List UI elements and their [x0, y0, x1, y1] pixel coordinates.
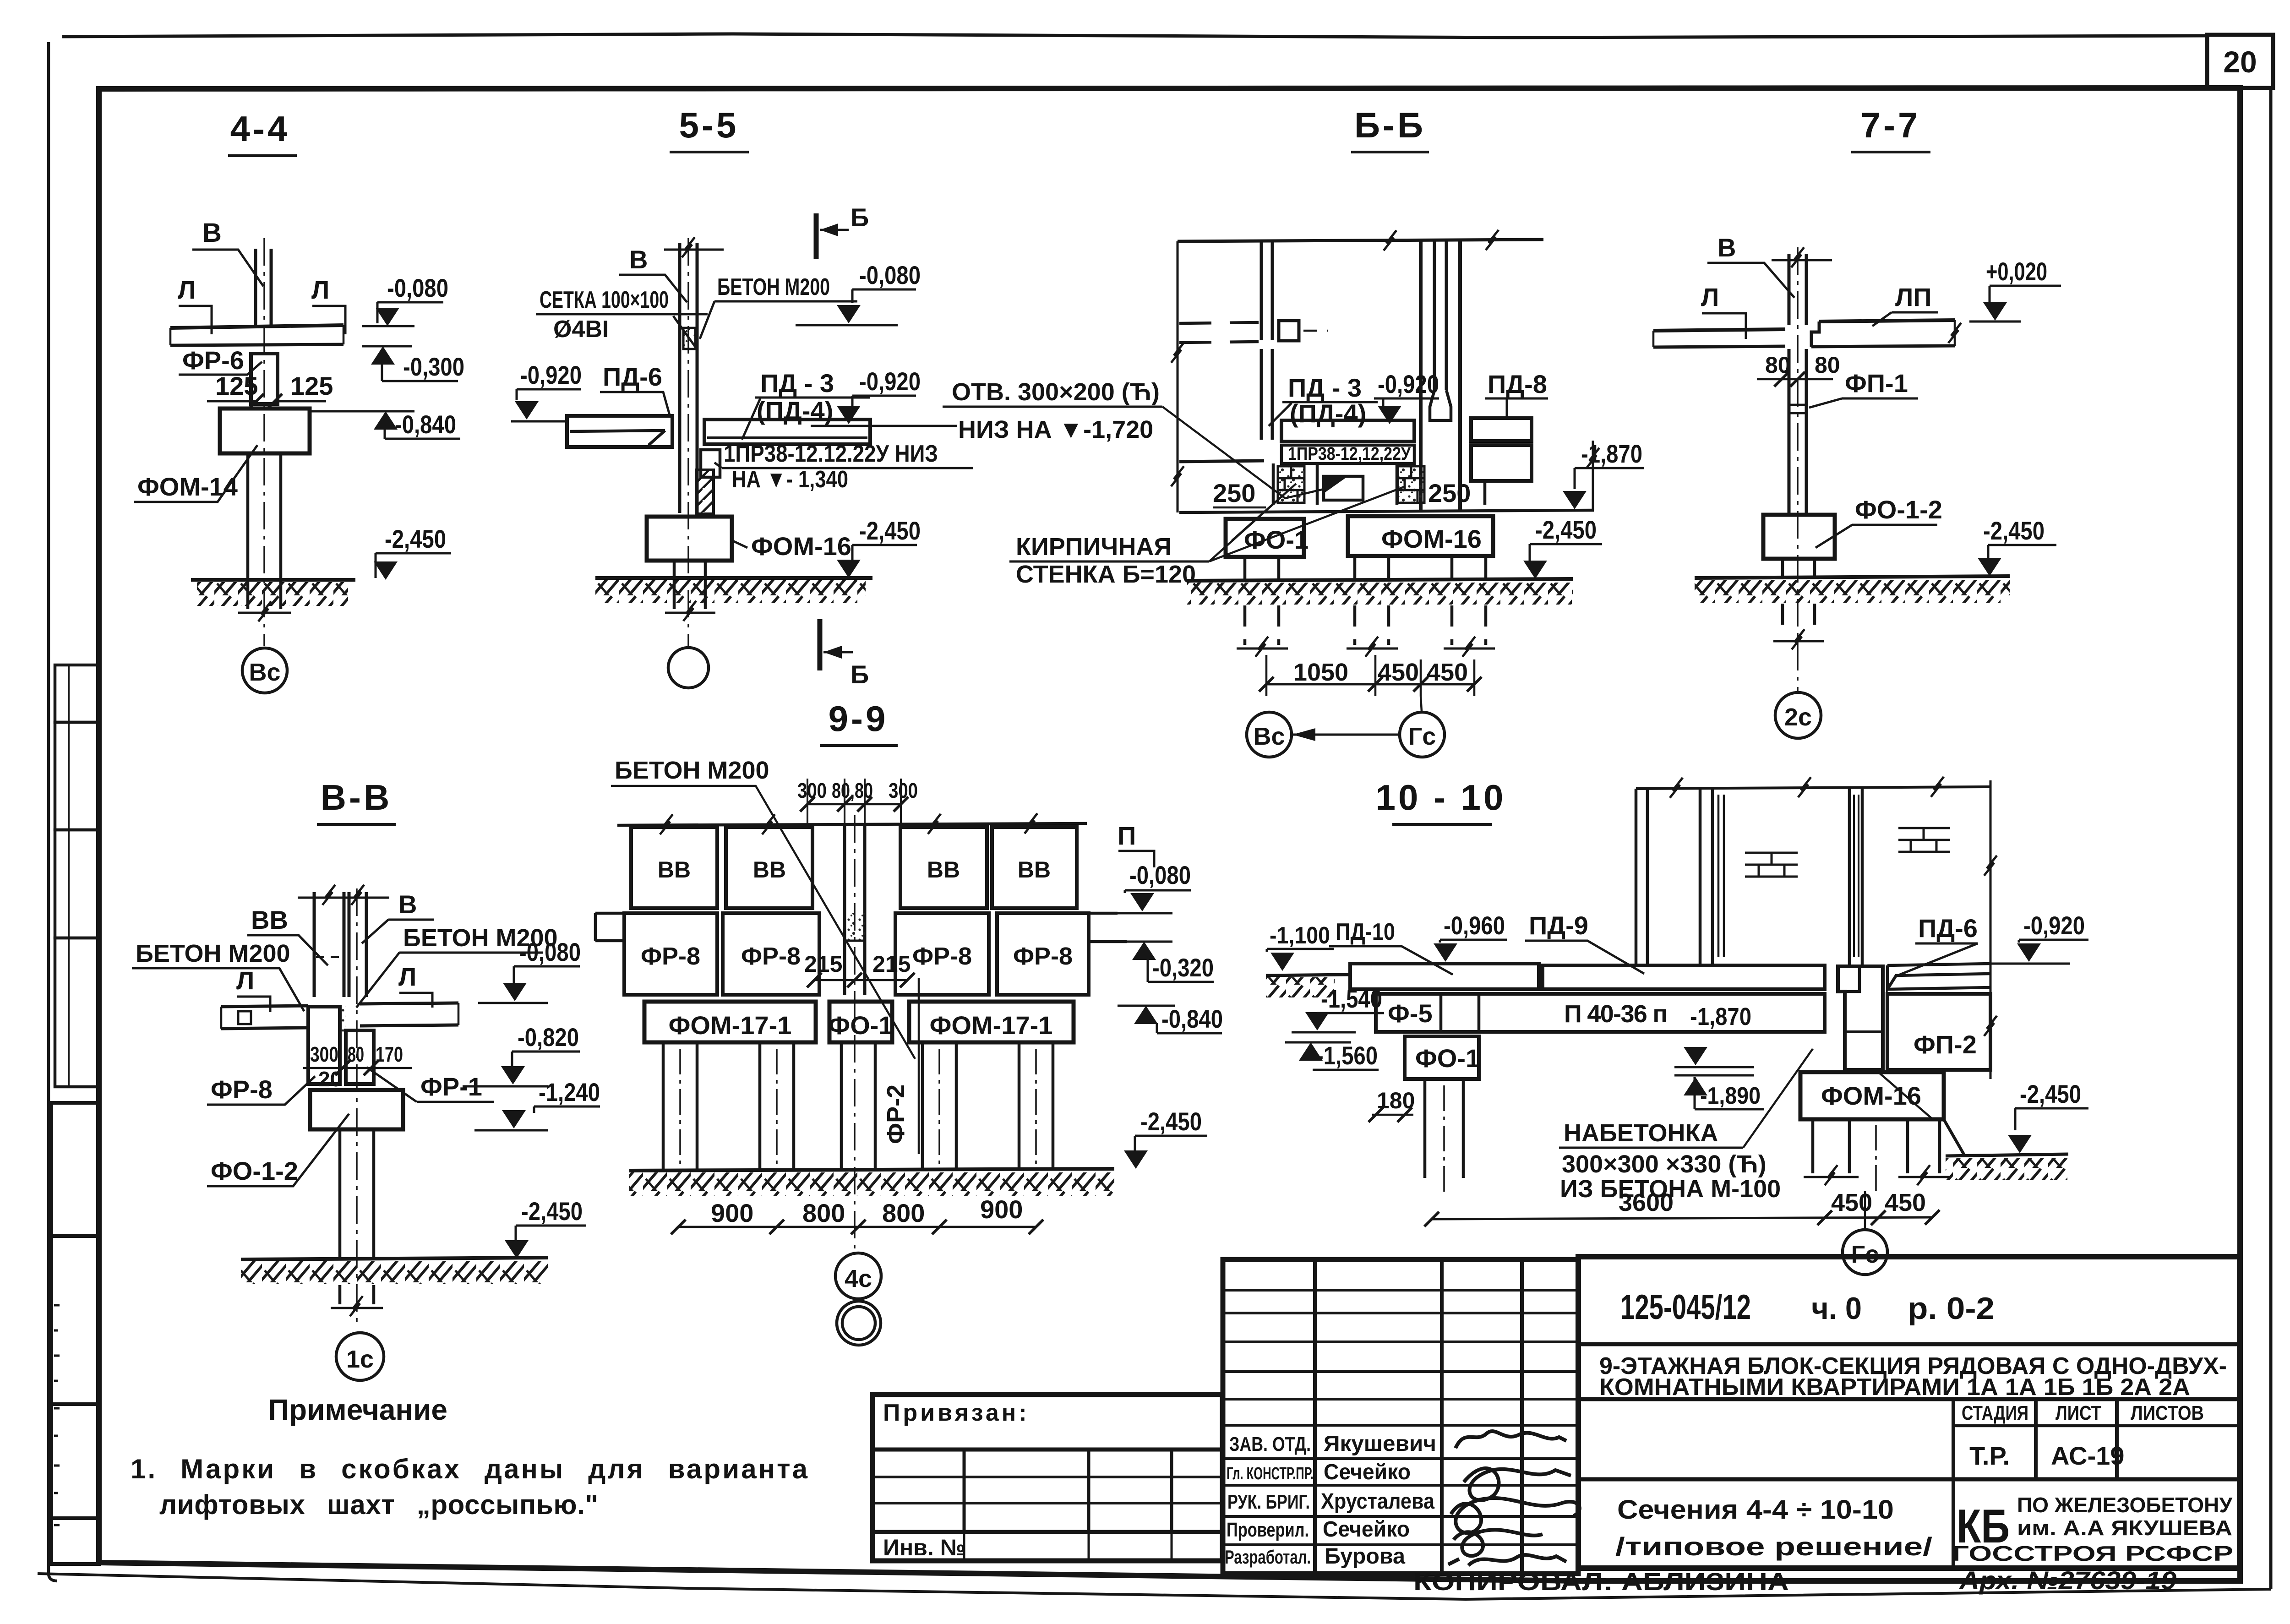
svg-text:Л: Л: [236, 966, 254, 995]
svg-text:-2,450: -2,450: [521, 1197, 583, 1226]
svg-text:Л: Л: [1701, 283, 1719, 311]
svg-text:-0,080: -0,080: [859, 261, 921, 289]
svg-text:ФР-2: ФР-2: [882, 1084, 910, 1144]
ground: [629, 1169, 1114, 1171]
beam П 40-36п row: [1376, 994, 1825, 1032]
top slab line: [1178, 240, 1543, 241]
right slab: [360, 1003, 458, 1026]
svg-text:ПД-6: ПД-6: [1918, 914, 1978, 943]
svg-text:-0,920: -0,920: [520, 360, 582, 389]
svg-text:ФП-2: ФП-2: [1914, 1030, 1977, 1059]
centerline: [854, 815, 856, 1250]
elevation -0,840: [310, 410, 460, 439]
svg-text:ПД-10: ПД-10: [1336, 919, 1395, 945]
ФОМ-16 footing: [1800, 1072, 1944, 1119]
svg-text:Сечейко: Сечейко: [1324, 1460, 1411, 1484]
right lower slab: [1471, 445, 1532, 481]
pile: [340, 1129, 374, 1259]
svg-text:-0,840: -0,840: [395, 410, 456, 439]
svg-text:800: 800: [882, 1199, 925, 1227]
sheet number box 20: [2207, 35, 2273, 88]
svg-text:В-В: В-В: [321, 777, 393, 817]
svg-text:ФР-8: ФР-8: [741, 943, 801, 970]
svg-text:В: В: [202, 218, 222, 248]
left margin boxes: [51, 665, 99, 1564]
svg-text:Б-Б: Б-Б: [1354, 105, 1426, 145]
ground: [1187, 579, 1573, 581]
axis circle (empty): [668, 648, 709, 688]
svg-text:ВВ: ВВ: [1018, 857, 1051, 883]
svg-text:Проверил.: Проверил.: [1227, 1519, 1309, 1541]
-1,890 level: [1674, 1066, 1754, 1068]
svg-text:300×300 ×330 (Ћ): 300×300 ×330 (Ћ): [1562, 1150, 1767, 1178]
top line: [1636, 787, 1990, 789]
svg-text:/типовое решение/: /типовое решение/: [1615, 1532, 1933, 1561]
axis circle Гс: [1864, 1191, 1866, 1229]
dashed slab: [1179, 322, 1259, 343]
bottom dims: [678, 1226, 1036, 1228]
svg-text:Сечейко: Сечейко: [1323, 1517, 1410, 1542]
center column: [845, 823, 865, 995]
bottom dims: [1432, 1217, 1932, 1219]
svg-text:4с: 4с: [845, 1265, 872, 1292]
left wall: [1261, 241, 1272, 340]
svg-text:Привязан:: Привязан:: [883, 1400, 1030, 1426]
svg-text:БЕТОН М200: БЕТОН М200: [717, 274, 830, 300]
svg-text:-2,450: -2,450: [1535, 515, 1597, 544]
svg-text:-0,920: -0,920: [859, 367, 921, 396]
right part: [1578, 1257, 2240, 1568]
svg-text:ВВ: ВВ: [251, 905, 288, 934]
svg-text:170: 170: [376, 1042, 403, 1066]
leaders from КИРПИЧНАЯ to piers: [1232, 484, 1296, 540]
svg-text:ФР-8: ФР-8: [641, 943, 700, 970]
svg-text:1ПР38-12,12,22У: 1ПР38-12,12,22У: [1288, 444, 1411, 464]
svg-text:ФО-1-2: ФО-1-2: [1855, 495, 1942, 524]
svg-text:КИРПИЧНАЯ: КИРПИЧНАЯ: [1016, 533, 1172, 561]
svg-text:Вс: Вс: [249, 659, 280, 686]
footing ФОМ-16: [1348, 516, 1493, 556]
svg-text:450: 450: [1831, 1189, 1872, 1216]
svg-text:Гл. КОНСТР.ПР.: Гл. КОНСТР.ПР.: [1227, 1464, 1314, 1483]
slab ПД-3 right: [704, 420, 870, 444]
svg-text:ФО-1: ФО-1: [1415, 1044, 1480, 1073]
svg-text:РУК. БРИГ.: РУК. БРИГ.: [1227, 1491, 1310, 1513]
svg-text:ФО-1: ФО-1: [828, 1011, 893, 1040]
ground: [1695, 576, 2010, 578]
axis circle Вс: [242, 648, 287, 693]
svg-text:5-5: 5-5: [679, 105, 739, 145]
svg-text:900: 900: [711, 1199, 753, 1227]
svg-text:-0,920: -0,920: [1378, 370, 1439, 398]
shaft hopper: [1430, 390, 1451, 420]
svg-text:Арх. №27639-19: Арх. №27639-19: [1958, 1566, 2176, 1595]
svg-text:-0,080: -0,080: [1129, 861, 1191, 889]
top line: [617, 823, 1087, 825]
svg-text:СТАДИЯ: СТАДИЯ: [1962, 1402, 2028, 1424]
bottom dimensions: [1266, 683, 1474, 686]
svg-text:-2,450: -2,450: [1140, 1107, 1202, 1136]
centerline: [1797, 247, 1799, 692]
svg-text:-1,240: -1,240: [539, 1078, 600, 1106]
svg-text:ФОМ-17-1: ФОМ-17-1: [930, 1011, 1053, 1040]
svg-text:им. А.А ЯКУШЕВА: им. А.А ЯКУШЕВА: [2017, 1516, 2232, 1540]
slab ПД-6 left: [567, 416, 672, 447]
ground: [595, 576, 872, 580]
elevation -0,080: [362, 273, 448, 326]
footing ФОМ-16: [647, 517, 732, 561]
beam 1ПР38 cross-section: [701, 450, 720, 477]
svg-text:7-7: 7-7: [1861, 105, 1921, 145]
slabs: [1350, 964, 1539, 989]
svg-text:ФОМ-17-1: ФОМ-17-1: [669, 1011, 792, 1040]
left notch: [595, 913, 624, 941]
svg-text:4-4: 4-4: [230, 109, 290, 149]
svg-text:-2,450: -2,450: [1983, 516, 2045, 545]
ФР-8 row: [624, 913, 1089, 995]
svg-text:Ø4ВI: Ø4ВI: [553, 316, 609, 343]
svg-text:ФОМ-14: ФОМ-14: [137, 472, 238, 501]
svg-text:ФП-1: ФП-1: [1845, 369, 1908, 398]
ФП-2 block: [1887, 994, 1990, 1070]
right slab stepped: [1819, 320, 1955, 322]
svg-text:В: В: [398, 890, 417, 919]
svg-text:Гс: Гс: [1408, 723, 1436, 750]
svg-text:1ПР38-12.12.22У НИЗ: 1ПР38-12.12.22У НИЗ: [724, 441, 938, 467]
svg-text:-0,960: -0,960: [1444, 911, 1505, 940]
svg-text:Ф-5: Ф-5: [1388, 999, 1433, 1028]
svg-text:-1,560: -1,560: [1316, 1041, 1378, 1070]
svg-text:ГОССТРОЯ РСФСР: ГОССТРОЯ РСФСР: [1952, 1542, 2233, 1565]
footing ФОМ-14: [220, 409, 310, 453]
svg-text:300: 300: [310, 1042, 338, 1066]
svg-text:ПД-9: ПД-9: [1529, 911, 1588, 940]
left floor line: [1179, 461, 1264, 462]
svg-text:-1,870: -1,870: [1690, 1003, 1751, 1030]
cut mark Б bottom: [818, 619, 823, 670]
svg-text:-1,100: -1,100: [1270, 922, 1330, 949]
piles solid: [1245, 557, 1279, 582]
svg-text:ВВ: ВВ: [753, 857, 786, 883]
svg-text:Примечание: Примечание: [268, 1393, 447, 1426]
svg-text:Б: Б: [851, 660, 869, 689]
brick piers: [1278, 466, 1424, 503]
pile: [674, 561, 705, 578]
svg-text:КОПИРОВАЛ: АБЛИЗИНА: КОПИРОВАЛ: АБЛИЗИНА: [1413, 1568, 1789, 1596]
elevation -2,450: [374, 524, 451, 580]
wall above: [1789, 254, 1806, 325]
piles under ФО-1: [1425, 1079, 1463, 1178]
svg-text:Л: Л: [398, 962, 416, 991]
piles under ФОМ-16: [1813, 1119, 1940, 1173]
walls above: [314, 892, 344, 997]
svg-text:-0,300: -0,300: [403, 352, 464, 381]
floor slab left part: [1281, 420, 1414, 441]
left slab: [221, 1006, 308, 1029]
svg-text:900: 900: [980, 1195, 1023, 1224]
right dim line: [1990, 780, 1992, 1079]
pile: [248, 453, 281, 581]
svg-text:ЛИСТОВ: ЛИСТОВ: [2131, 1402, 2204, 1424]
svg-text:3600: 3600: [1619, 1189, 1674, 1216]
svg-text:800: 800: [802, 1199, 845, 1227]
right ground: [1946, 1154, 2068, 1156]
pile: [1783, 559, 1815, 578]
svg-text:215: 215: [872, 951, 911, 977]
svg-text:125: 125: [290, 371, 333, 400]
svg-text:Бурова: Бурова: [1325, 1544, 1405, 1569]
svg-text:В: В: [1717, 233, 1736, 262]
svg-text:ВВ: ВВ: [927, 857, 960, 883]
svg-text:-2,450: -2,450: [385, 524, 446, 553]
svg-text:Якушевич: Якушевич: [1324, 1432, 1436, 1456]
footing ФО-1: [1226, 519, 1304, 557]
svg-text:250: 250: [1213, 479, 1255, 507]
svg-text:ФР-8: ФР-8: [912, 943, 972, 970]
left wide wall: [1636, 789, 1647, 965]
central pier: [1838, 966, 1883, 1070]
svg-text:Т.Р.: Т.Р.: [1969, 1441, 2010, 1470]
svg-text:-1,890: -1,890: [1700, 1083, 1761, 1109]
level line -1,870: [1179, 510, 1594, 512]
svg-text:ЛИСТ: ЛИСТ: [2056, 1402, 2101, 1424]
svg-text:ФОМ-16: ФОМ-16: [1381, 524, 1482, 553]
svg-text:ПО ЖЕЛЕЗОБЕТОНУ: ПО ЖЕЛЕЗОБЕТОНУ: [2017, 1493, 2233, 1517]
svg-text:450: 450: [1885, 1189, 1926, 1216]
svg-text:1с: 1с: [346, 1346, 374, 1373]
svg-text:В: В: [629, 245, 648, 274]
brick mark right: [1898, 828, 1950, 852]
signatures scribbles: [1448, 1431, 1580, 1565]
joint detail: [683, 328, 695, 349]
svg-text:НИЗ НА ▼-1,720: НИЗ НА ▼-1,720: [958, 416, 1153, 443]
block ФР-8: [308, 1007, 340, 1084]
footing: [310, 1090, 403, 1129]
svg-text:П: П: [1118, 821, 1136, 850]
svg-text:Хрусталева: Хрусталева: [1321, 1489, 1434, 1514]
svg-text:20: 20: [2223, 45, 2257, 79]
centerline: [687, 238, 689, 649]
svg-text:Б: Б: [851, 203, 869, 232]
beam row 1ПР38-12.12.22У: [1281, 445, 1414, 463]
callouts between 5-5 and 6-6: [943, 378, 1405, 588]
axis circle 4с: [835, 1253, 881, 1299]
svg-text:80: 80: [1815, 352, 1840, 378]
wall В: [256, 249, 271, 326]
central signature table: [1223, 1259, 1578, 1574]
left slab: [1653, 329, 1785, 331]
svg-text:80,80: 80,80: [832, 779, 873, 802]
svg-text:1. Марки в скобках даны дл: 1. Марки в скобках даны для варианта: [131, 1454, 808, 1484]
svg-text:-0,320: -0,320: [1152, 953, 1214, 982]
svg-text:АС-19: АС-19: [2051, 1441, 2124, 1470]
svg-text:КОМНАТНЫМИ КВАРТИРАМИ 1А 1А: КОМНАТНЫМИ КВАРТИРАМИ 1А 1А 1Б 1Б 2А 2А: [1599, 1374, 2190, 1401]
svg-text:ПД - 3: ПД - 3: [1288, 373, 1362, 402]
svg-text:1050: 1050: [1293, 659, 1348, 686]
svg-text:10 - 10: 10 - 10: [1376, 777, 1506, 817]
svg-text:ОТВ. 300×200 (Ћ): ОТВ. 300×200 (Ћ): [952, 378, 1160, 406]
elevation -0,300: [362, 346, 464, 381]
svg-text:Вс: Вс: [1253, 723, 1285, 750]
svg-text:450: 450: [1427, 659, 1468, 686]
svg-text:125: 125: [215, 371, 258, 400]
svg-text:+0,020: +0,020: [1986, 257, 2047, 286]
svg-text:ФОМ-16: ФОМ-16: [751, 532, 851, 561]
svg-text:лифтовых шахт „россыпью.": лифтовых шахт „россыпью.": [159, 1489, 598, 1520]
ФО-1 block: [1405, 1036, 1479, 1079]
svg-text:БЕТОН М200: БЕТОН М200: [615, 757, 769, 784]
axis circle 2с: [1775, 692, 1821, 738]
block ФР-6 under slab: [251, 354, 278, 404]
small square block: [1279, 321, 1299, 341]
ground: [241, 1258, 548, 1259]
svg-text:2с: 2с: [1784, 703, 1812, 731]
footing ФО-1-2: [1763, 515, 1835, 559]
svg-text:ПД-6: ПД-6: [603, 362, 662, 391]
svg-text:-2,450: -2,450: [2020, 1079, 2081, 1108]
svg-text:ФР-8: ФР-8: [1013, 943, 1073, 970]
cut mark Б top: [814, 213, 819, 259]
svg-text:ФР-8: ФР-8: [211, 1075, 273, 1104]
svg-text:20: 20: [318, 1067, 342, 1091]
svg-text:80: 80: [348, 1042, 364, 1066]
svg-text:-0,840: -0,840: [1161, 1004, 1223, 1033]
svg-text:ЗАВ. ОТД.: ЗАВ. ОТД.: [1229, 1433, 1311, 1455]
svg-text:СЕТКА 100×100: СЕТКА 100×100: [540, 287, 669, 313]
svg-text:-0,080: -0,080: [519, 937, 581, 966]
svg-text:П 40-36 п: П 40-36 п: [1564, 1000, 1668, 1028]
ground line: [191, 578, 355, 582]
svg-text:ПД-8: ПД-8: [1488, 370, 1547, 398]
piles dashed below: [1245, 605, 1486, 645]
svg-text:-2,450: -2,450: [859, 516, 921, 545]
left attachment table: [872, 1395, 1222, 1561]
right upper slab stepped: [1887, 964, 1990, 989]
brick pier hatched: [696, 470, 714, 514]
svg-text:ЛП: ЛП: [1895, 283, 1932, 311]
svg-text:НА ▼- 1,340: НА ▼- 1,340: [732, 466, 848, 493]
axis circle 1с: [336, 1333, 384, 1380]
svg-text:ч. 0: ч. 0: [1811, 1291, 1862, 1326]
svg-text:-0,080: -0,080: [387, 273, 448, 302]
svg-text:-0,820: -0,820: [518, 1023, 579, 1052]
svg-text:ВВ: ВВ: [658, 857, 691, 883]
svg-text:ФО-1-2: ФО-1-2: [211, 1156, 298, 1185]
floor slab right of shaft: [1471, 418, 1532, 441]
opening with filled corner: [1324, 476, 1363, 500]
svg-text:250: 250: [1428, 479, 1471, 507]
wall column: [680, 243, 697, 513]
pile centerlines: [680, 1049, 1036, 1166]
svg-text:Инв. №: Инв. №: [883, 1535, 965, 1560]
block ФР-1: [346, 1030, 374, 1084]
svg-text:(ПД-4): (ПД-4): [1290, 399, 1366, 428]
left dim line vertical: [1177, 241, 1179, 512]
svg-text:Л: Л: [311, 275, 329, 304]
svg-text:Сечения 4-4 ÷ 10-10: Сечения 4-4 ÷ 10-10: [1617, 1495, 1894, 1525]
svg-text:Л: Л: [178, 275, 196, 304]
footings row: [644, 1002, 816, 1042]
svg-text:БЕТОН М200: БЕТОН М200: [136, 940, 290, 967]
floor slab: [170, 325, 343, 328]
piers below floor: [1273, 463, 1317, 505]
svg-text:Разработал.: Разработал.: [1225, 1546, 1311, 1568]
svg-text:300: 300: [889, 779, 918, 802]
ВВ blocks row: [631, 827, 1077, 908]
svg-text:ФО-1: ФО-1: [1244, 525, 1309, 554]
svg-text:ПД - 3: ПД - 3: [760, 369, 834, 398]
svg-text:450: 450: [1378, 659, 1419, 686]
centerline: [356, 888, 358, 1328]
ring: [837, 1301, 881, 1345]
svg-text:НАБЕТОНКА: НАБЕТОНКА: [1564, 1119, 1718, 1147]
svg-text:125-045/12: 125-045/12: [1620, 1288, 1751, 1327]
svg-text:р. 0-2: р. 0-2: [1908, 1291, 1995, 1326]
svg-text:-0,920: -0,920: [2023, 911, 2085, 940]
axis circles: [1247, 712, 1292, 757]
piles: [663, 1042, 1053, 1169]
concrete joint speckle: [341, 1006, 345, 1033]
svg-text:СТЕНКА Б=120: СТЕНКА Б=120: [1016, 561, 1196, 588]
brick mark left: [1745, 853, 1798, 877]
right wall: [1849, 789, 1862, 965]
centerline: [263, 238, 265, 646]
svg-text:9-9: 9-9: [829, 698, 889, 739]
left ground strip: [1266, 975, 1350, 975]
lift shaft walls: [1421, 241, 1460, 510]
wall below slab: [1789, 349, 1806, 515]
svg-text:ФР-6: ФР-6: [182, 346, 244, 375]
svg-text:215: 215: [804, 951, 842, 977]
